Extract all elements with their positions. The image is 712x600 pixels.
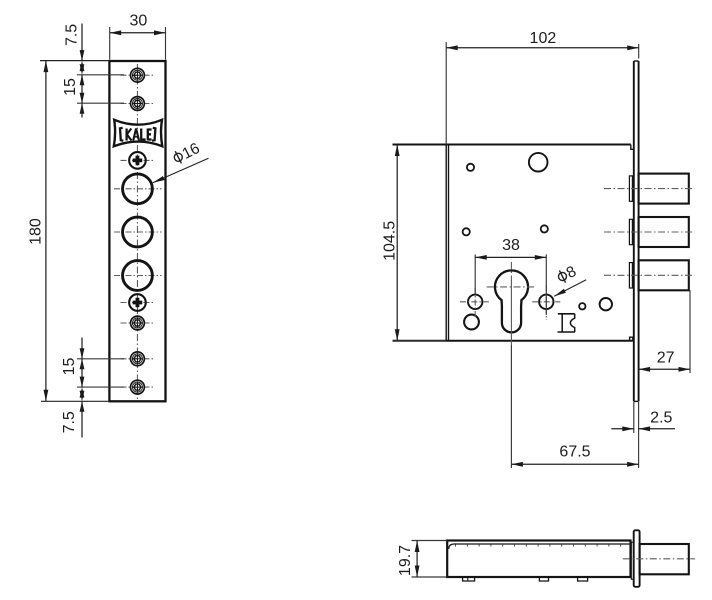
svg-text:15: 15 [62,78,79,96]
svg-text:104.5: 104.5 [382,221,399,261]
svg-text:180: 180 [27,218,44,245]
svg-text:2.5: 2.5 [650,410,672,427]
svg-text:102: 102 [530,30,557,47]
svg-text:67.5: 67.5 [559,444,590,461]
svg-text:7.5: 7.5 [61,411,78,433]
svg-text:7.5: 7.5 [64,24,81,46]
svg-text:27: 27 [657,350,675,367]
svg-text:19.7: 19.7 [397,545,414,576]
svg-text:15: 15 [61,358,78,376]
svg-text:38: 38 [502,237,520,254]
svg-text:30: 30 [130,13,148,30]
